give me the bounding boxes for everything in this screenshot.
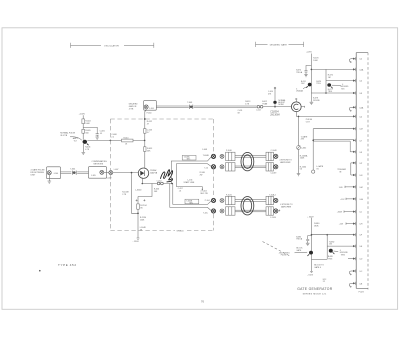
leader to B684 <box>295 251 308 254</box>
svg-text:L-654D: L-654D <box>135 189 142 191</box>
pin 8 <box>353 139 356 143</box>
svg-text:3-8: 3-8 <box>359 93 362 95</box>
svg-text:TRIG: TRIG <box>341 254 346 256</box>
coax wire bead to oo <box>194 106 257 107</box>
label C605 <box>100 131 105 135</box>
pin 9 <box>353 150 356 154</box>
rung 10 wire <box>351 162 353 164</box>
node H amp / main vertical <box>144 140 146 142</box>
output plug upper row2 <box>274 165 278 169</box>
rung 15 stub <box>346 223 353 225</box>
wire VA vertical <box>298 116 300 173</box>
delay block lower left row2 <box>226 207 235 215</box>
rung 17 wire <box>327 245 353 247</box>
label C657 <box>178 188 183 192</box>
svg-text:T-10A-4: T-10A-4 <box>269 193 275 196</box>
label stroke to amplifier upper <box>279 160 292 165</box>
leader to B676 <box>332 84 341 86</box>
label B674 <box>301 81 306 85</box>
label trigger in <box>337 169 346 173</box>
svg-text:560: 560 <box>85 133 88 135</box>
label L660 <box>140 227 146 231</box>
transistor B674 <box>306 83 311 88</box>
rung 14 stub <box>344 211 353 213</box>
label R653 <box>147 130 152 134</box>
hook 5 <box>349 107 351 111</box>
svg-text:TRIG: TRIG <box>316 83 321 85</box>
rung 20 stub <box>351 282 353 284</box>
test point VB <box>312 170 315 173</box>
node V2 junction <box>137 213 139 215</box>
svg-text:3-8: 3-8 <box>359 152 362 154</box>
pin 6 <box>353 115 356 119</box>
wire V2 down to -150V <box>137 197 139 239</box>
shield box bottom edge <box>110 230 213 232</box>
svg-text:3-64: 3-64 <box>359 199 363 201</box>
svg-text:P-104: P-104 <box>205 200 210 202</box>
pin 14 <box>353 210 356 214</box>
ground at J1 <box>48 181 52 183</box>
svg-text:+ 300V: + 300V <box>307 216 314 218</box>
wire bottom subckt V1 <box>311 218 313 272</box>
bead T604 <box>72 171 76 175</box>
svg-text:AMPLIFIER: AMPLIFIER <box>280 161 291 164</box>
label: GATE PULSE FROM TIMING UNIT <box>31 169 46 177</box>
rung 12 stub <box>345 186 353 188</box>
svg-text:C-1048: C-1048 <box>271 150 277 152</box>
step rung8 to rung9 <box>349 141 351 152</box>
capacitor C605 <box>96 134 99 137</box>
terminal -150V bottom <box>310 271 313 272</box>
leader to B674 <box>303 86 308 88</box>
label R661 <box>301 135 308 140</box>
label compensating network <box>92 160 108 165</box>
connector J3 <box>144 105 148 109</box>
label R663 <box>300 154 308 159</box>
svg-text:2W: 2W <box>200 174 203 176</box>
label R652 <box>147 121 152 125</box>
bead T608 <box>189 105 192 109</box>
rung 19 stub <box>351 270 353 272</box>
svg-text:C-652: C-652 <box>157 180 162 182</box>
svg-text:SEC 2W: SEC 2W <box>200 193 207 195</box>
rung 16 wire <box>312 234 354 236</box>
svg-text:100K: 100K <box>300 158 305 160</box>
svg-text:GATE GENERATOR: GATE GENERATOR <box>297 287 333 291</box>
connector box J3 <box>144 100 157 110</box>
connector box J1 <box>47 167 61 179</box>
wire H1 into box <box>113 172 138 174</box>
svg-text:T-604: T-604 <box>70 168 75 170</box>
label R613 <box>245 101 250 105</box>
output plug lower row2 <box>274 209 278 213</box>
feedthrough lower row1 <box>211 198 215 202</box>
stub right of tube <box>301 106 304 108</box>
svg-text:PULSE: PULSE <box>281 255 288 257</box>
capacitor C670 <box>305 71 308 75</box>
svg-text:47: 47 <box>147 123 149 125</box>
delay block lower left row1 <box>226 196 235 204</box>
svg-text:P-650: P-650 <box>147 112 152 114</box>
wire fan lower C <box>173 184 212 205</box>
svg-text:4.7: 4.7 <box>147 132 150 134</box>
pin 12 <box>353 185 356 189</box>
pin 10 <box>353 161 356 165</box>
delay block upper left row1 <box>226 152 235 160</box>
resistor R658 <box>137 204 140 209</box>
svg-text:TRIG: TRIG <box>328 91 333 93</box>
wire top subckt V2 <box>325 69 327 93</box>
boxed label T604A SEC <box>182 155 196 160</box>
rung 13 stub <box>346 198 353 200</box>
pin 7 <box>353 127 356 131</box>
core upper <box>241 152 254 170</box>
svg-text:TRIG A: TRIG A <box>296 71 303 74</box>
wire coax box1-bead <box>61 172 72 173</box>
wire J1 to ground <box>48 175 50 181</box>
output plug upper row1 <box>274 154 278 158</box>
pin 15 <box>353 222 356 226</box>
svg-text:ROUND: ROUND <box>313 100 320 102</box>
rung 11 wire <box>351 174 353 176</box>
wire fan upper B <box>176 164 211 187</box>
label R659 <box>140 217 146 221</box>
label LRC <box>323 279 327 283</box>
wire B612 vertical <box>274 89 276 107</box>
label normal pulse in <box>60 132 75 137</box>
plug upper row2 <box>220 165 224 169</box>
svg-text:4 TIB: 4 TIB <box>129 108 134 110</box>
svg-text:TYPE 452: TYPE 452 <box>58 263 77 267</box>
leader to Q amp <box>70 137 82 140</box>
transistor B612 <box>273 101 276 104</box>
hook 19 <box>349 271 351 275</box>
svg-text:IN 4 TIB: IN 4 TIB <box>60 135 68 137</box>
label R606 <box>85 147 90 151</box>
ground C680 <box>306 243 310 245</box>
svg-text:- 150V: - 150V <box>307 275 314 277</box>
node pulse out <box>298 116 300 118</box>
label stroke to amplifier lower <box>280 204 293 209</box>
svg-text:100K: 100K <box>313 60 318 62</box>
feedthrough upper row2 <box>211 165 215 169</box>
label R655 <box>122 192 128 196</box>
label R682 <box>329 241 334 245</box>
svg-text:68: 68 <box>238 113 240 115</box>
step rung10 to rung11 <box>350 163 352 175</box>
wire tube down to pulse out <box>296 112 353 117</box>
svg-text:56: 56 <box>300 169 302 171</box>
core lower <box>241 197 254 215</box>
stray dot <box>39 270 41 272</box>
shield box right edge <box>213 119 215 231</box>
wire V1 tail below <box>310 93 312 102</box>
svg-text:.01: .01 <box>100 133 103 135</box>
svg-text:START LINE: START LINE <box>184 181 195 184</box>
boxed label T604B SEC <box>185 199 199 204</box>
plug lower row2 <box>220 209 224 213</box>
hook 1 <box>349 59 351 63</box>
wire top subckt V1 <box>310 54 312 94</box>
svg-text:3-4: 3-4 <box>359 116 362 118</box>
svg-text:1M: 1M <box>328 77 331 79</box>
label R658 <box>140 205 146 209</box>
terminal -150V <box>137 238 140 239</box>
wire coax bead-box2 <box>77 172 88 173</box>
wire fan lower D <box>170 184 212 211</box>
resistor R610 <box>122 139 134 142</box>
transistor Q amp <box>83 140 89 146</box>
connector J1 <box>47 171 51 175</box>
svg-text:PLUG: PLUG <box>359 291 365 293</box>
svg-text:- 150V: - 150V <box>133 241 140 243</box>
label R656 <box>154 188 159 192</box>
plug upper row1 <box>220 154 224 158</box>
transistor B684 <box>307 251 313 256</box>
wire box2 to shield <box>104 172 109 174</box>
node rung8 VB <box>312 140 314 142</box>
svg-text:T-10: T-10 <box>204 168 208 170</box>
svg-text:1-6D: 1-6D <box>339 187 344 189</box>
svg-text:.01: .01 <box>179 190 182 192</box>
pin 16 <box>353 233 356 237</box>
svg-text:12AT7A: 12AT7A <box>150 172 158 175</box>
rung 7 wire <box>313 128 353 130</box>
label R605 <box>85 130 90 134</box>
svg-text:UNIT: UNIT <box>31 174 36 176</box>
transistor B676 <box>327 83 332 88</box>
ground C605 <box>95 137 99 139</box>
svg-text:+225V: +225V <box>306 52 312 54</box>
coax upper row2 <box>235 166 266 168</box>
svg-text:V-9: V-9 <box>74 141 77 143</box>
pin 2 <box>353 68 356 72</box>
svg-text:CD654: CD654 <box>150 169 157 172</box>
label NORMAL ADJUST <box>278 99 285 106</box>
coax lower row1 <box>235 200 266 202</box>
svg-text:T-608: T-608 <box>187 102 192 104</box>
node below tube <box>142 183 144 185</box>
node V2 top bottom subckt <box>326 234 328 236</box>
wire H3 <box>176 187 202 190</box>
wire fan upper A <box>171 157 211 184</box>
plus mark lower <box>278 210 280 212</box>
label C611 <box>238 110 243 114</box>
label T1042 SEC dark <box>200 191 207 195</box>
svg-text:2N1308A: 2N1308A <box>269 113 280 116</box>
label R654 <box>147 148 152 152</box>
hook 20 <box>349 283 351 287</box>
label B685 below <box>328 256 333 260</box>
label A BLOCKING PULSE <box>279 252 290 256</box>
wire VB vertical <box>312 129 314 170</box>
label B612 TRAN <box>262 101 268 105</box>
ground below Q amp <box>82 153 86 155</box>
node rung16 <box>311 234 313 236</box>
svg-text:150K: 150K <box>140 220 145 222</box>
variable cap C662 <box>297 146 301 150</box>
ground C670 <box>304 75 308 77</box>
rung 8 coax wire <box>313 140 353 142</box>
wire below Q amp <box>82 144 84 152</box>
svg-text:3-7: 3-7 <box>359 140 362 142</box>
svg-text:L-612: L-612 <box>256 110 261 112</box>
pin 19 <box>353 269 356 273</box>
svg-text:+100V: +100V <box>79 113 86 115</box>
plus marks <box>136 199 146 201</box>
svg-text:J-106: J-106 <box>149 108 154 110</box>
wire bottom subckt V2 <box>326 235 328 260</box>
rung 18 stub <box>348 258 353 260</box>
capacitor C652 (oo) <box>157 182 163 185</box>
svg-text:TRIG: TRIG <box>328 259 333 261</box>
compensating network box <box>89 167 107 179</box>
resistor R654 <box>144 147 146 152</box>
wire cap branch <box>83 127 97 133</box>
delay block upper right row2 <box>266 163 273 171</box>
rung 3 wire <box>326 80 353 82</box>
rung 4 wire <box>311 92 353 94</box>
svg-text:P-1040: P-1040 <box>226 150 232 152</box>
svg-text:J-104: J-104 <box>53 173 58 175</box>
label R680 <box>314 223 319 227</box>
svg-text:L-607: L-607 <box>114 169 119 171</box>
dimension line 1 (left) <box>71 43 154 48</box>
label B676 <box>316 81 321 85</box>
delay block upper left row2 <box>226 163 235 171</box>
wire cap branch bottom <box>308 236 312 240</box>
label R670 <box>313 58 318 62</box>
node shield crossing <box>110 140 112 142</box>
label V654 <box>150 169 158 175</box>
label B670 <box>296 70 303 74</box>
svg-text:100K: 100K <box>85 123 90 125</box>
leader to B685 <box>334 250 339 253</box>
label AMPL <box>73 137 78 142</box>
svg-text:NORM: NORM <box>278 104 284 106</box>
label C608 <box>111 134 116 138</box>
pin 3 <box>353 79 356 83</box>
shield box top edge <box>110 118 213 120</box>
svg-text:3-47: 3-47 <box>359 129 363 131</box>
label A 2N404 with leader <box>296 88 303 92</box>
svg-text:OSCILLATOR: OSCILLATOR <box>104 44 119 47</box>
resistor R604 <box>82 119 85 124</box>
coax wire box3 to bead <box>156 106 189 107</box>
tube V654 <box>138 168 148 178</box>
svg-text:+300V: +300V <box>337 212 343 214</box>
delay block lower right row2 <box>266 207 273 215</box>
shield box left edge <box>109 119 111 231</box>
label L134 start line <box>184 180 195 184</box>
oscillator tube CD2054 <box>291 102 301 112</box>
svg-text:J-105: J-105 <box>91 175 96 177</box>
svg-text:GATE 4: GATE 4 <box>314 266 321 269</box>
resistor R605 <box>82 129 85 133</box>
svg-text:2N404A: 2N404A <box>296 90 303 93</box>
node fan junction <box>171 183 173 185</box>
wire cap branch top <box>306 66 311 71</box>
ladder vertical <box>355 53 357 289</box>
dimension line 2 (right) <box>256 42 304 47</box>
svg-text:TRAN: TRAN <box>262 102 268 105</box>
wire H amp output <box>87 139 144 141</box>
coax lower row2 <box>235 210 266 212</box>
capacitor C680 <box>306 239 309 243</box>
wire bottom tie <box>312 258 328 260</box>
label CD2054 italic <box>269 111 280 117</box>
rung 2 wire <box>311 68 353 70</box>
svg-text:C-662: C-662 <box>301 148 306 150</box>
label A GROUNDED TRIG with leader <box>340 250 349 257</box>
grid tick above tube <box>295 100 297 102</box>
svg-text:NETWORK: NETWORK <box>94 164 104 166</box>
wire oo to junction <box>263 106 291 108</box>
svg-text:R-610: R-610 <box>124 138 129 140</box>
label R672 <box>328 75 333 79</box>
ladder dashed boundary <box>367 53 369 290</box>
feedthrough lower row2 <box>211 209 215 213</box>
node rung2 <box>311 69 313 71</box>
svg-text:3-4: 3-4 <box>359 81 362 83</box>
ladder top tie <box>356 52 368 54</box>
svg-text:TRIG A: TRIG A <box>296 238 303 241</box>
svg-text:2.2: 2.2 <box>111 137 114 139</box>
pin 17 <box>353 244 356 248</box>
svg-text:C-648: C-648 <box>202 149 207 151</box>
node V2 bottom top subckt <box>325 92 327 94</box>
label R664 <box>300 166 306 170</box>
svg-text:DELAYED GATE: DELAYED GATE <box>270 43 288 46</box>
label B680 <box>296 236 303 240</box>
main vertical delayed gate <box>145 109 146 168</box>
label A GROUNDED SIG with leader <box>340 84 349 91</box>
pin 5 <box>353 106 356 110</box>
svg-text:3-J: 3-J <box>359 212 362 214</box>
ground VA <box>297 174 301 176</box>
label B677 below <box>328 89 333 93</box>
label PULSE OUT <box>306 119 313 123</box>
svg-text:C-1049: C-1049 <box>270 172 276 174</box>
pin 13 <box>353 197 356 201</box>
transistor B685 <box>329 249 335 254</box>
label R10B <box>200 172 206 176</box>
label DELAYED GATE IN <box>129 103 138 111</box>
svg-text:C-609: C-609 <box>107 177 112 179</box>
pin 20 <box>353 282 356 286</box>
svg-text:T-604B: T-604B <box>203 155 210 157</box>
label B684 <box>296 248 303 252</box>
delay block lower right row1 <box>266 196 273 204</box>
svg-text:180K: 180K <box>314 226 319 228</box>
pin 11 <box>353 173 356 177</box>
pin 18 <box>353 257 356 261</box>
resistor R653 <box>144 129 146 134</box>
terminal top B612 <box>274 87 276 89</box>
pencil squiggle annotation <box>161 170 173 182</box>
svg-text:C-1050: C-1050 <box>270 217 276 219</box>
svg-text:CD2054: CD2054 <box>270 111 279 114</box>
connector pair L612 (oo) <box>257 105 263 108</box>
wire H2 <box>142 183 173 185</box>
rung 5 stub <box>351 106 353 108</box>
rung 9 wire <box>350 151 353 153</box>
wire +100V vertical <box>82 115 84 140</box>
svg-text:T-10C: T-10C <box>203 212 209 214</box>
output plug lower row1 <box>274 198 278 202</box>
feedthrough upper row1 <box>211 154 215 158</box>
coax upper row1 <box>235 156 266 158</box>
